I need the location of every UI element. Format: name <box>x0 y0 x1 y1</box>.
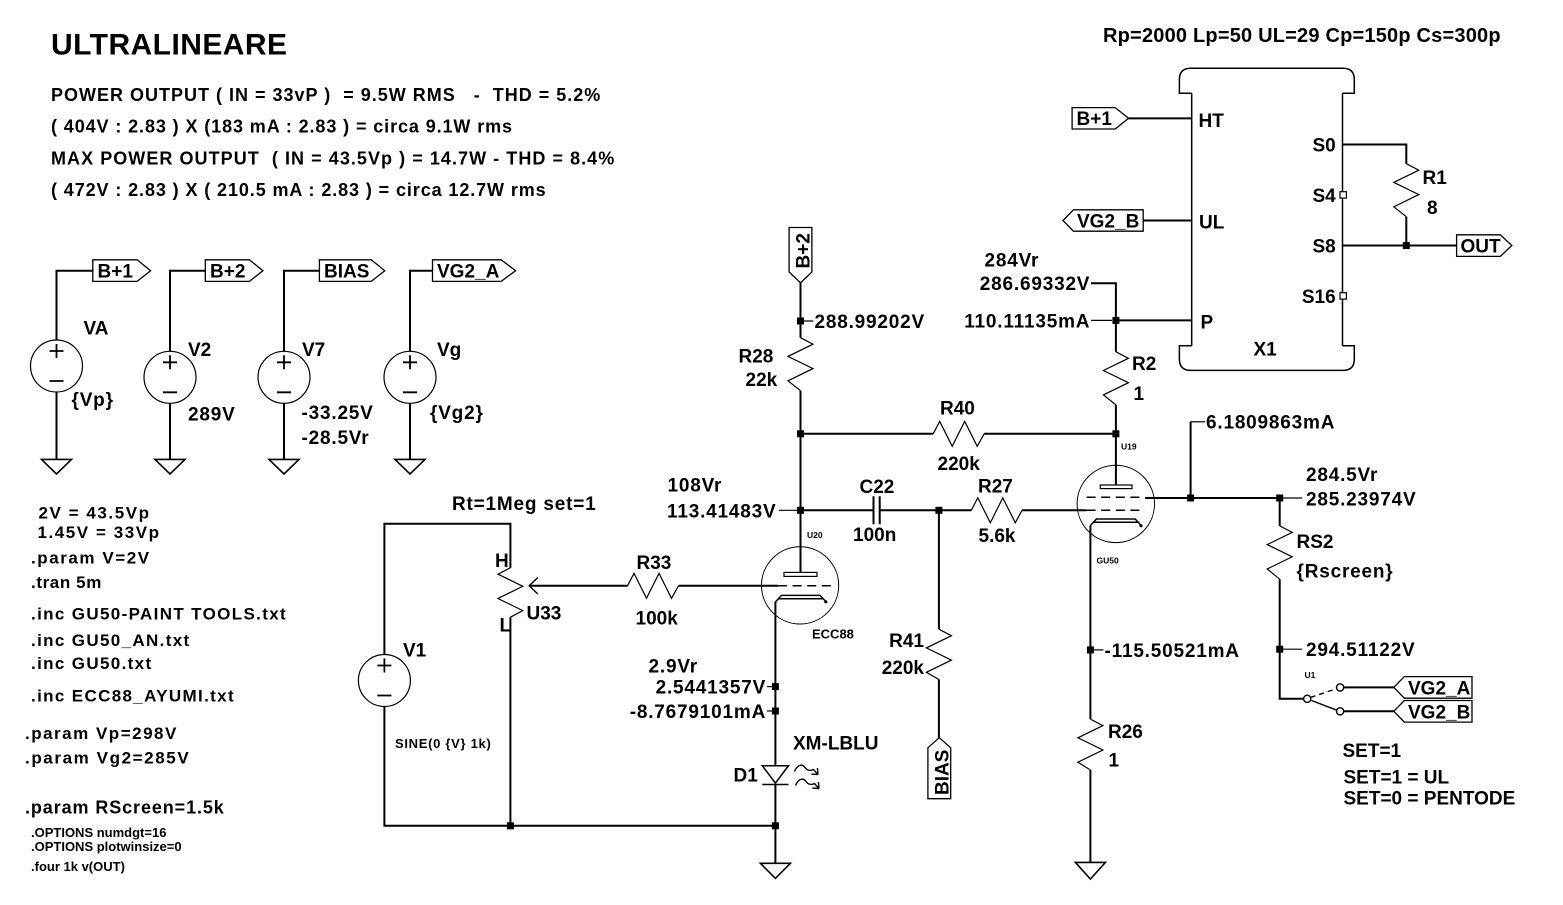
wire stub to 6.1809863mA <box>1190 422 1192 498</box>
svg-text:.OPTIONS numdgt=16: .OPTIONS numdgt=16 <box>31 825 166 840</box>
svg-text:2V = 43.5Vp: 2V = 43.5Vp <box>39 504 151 523</box>
resistor R33 <box>628 553 679 630</box>
svg-text:U1: U1 <box>1305 670 1316 680</box>
wire R1 to S8 net <box>1405 217 1407 246</box>
svg-text:SET=1: SET=1 <box>1343 741 1402 762</box>
svg-text:289V: 289V <box>188 405 236 426</box>
svg-text:ULTRALINEARE: ULTRALINEARE <box>51 29 288 62</box>
svg-text:VG2_A: VG2_A <box>1408 679 1471 700</box>
net flag BIAS (left column) <box>319 260 384 283</box>
triode U20 ECC88 <box>762 510 854 641</box>
svg-text:.OPTIONS plotwinsize=0: .OPTIONS plotwinsize=0 <box>31 839 182 854</box>
tick 110.11135mA <box>1091 319 1112 321</box>
wire R2 to node <box>1115 405 1117 434</box>
svg-text:H: H <box>495 551 509 572</box>
wire P node to pin P <box>1116 319 1192 321</box>
svg-text:.inc GU50_AN.txt: .inc GU50_AN.txt <box>31 631 191 650</box>
svg-text:R41: R41 <box>889 631 924 652</box>
svg-text:( 472V : 2.83 ) X ( 210.5 mA :: ( 472V : 2.83 ) X ( 210.5 mA : 2.83 ) = … <box>51 180 547 200</box>
svg-text:6.1809863mA: 6.1809863mA <box>1206 413 1335 434</box>
svg-text:R26: R26 <box>1108 722 1143 743</box>
ground (V7) <box>269 459 299 474</box>
svg-text:B+2: B+2 <box>210 262 245 283</box>
svg-text:1: 1 <box>1109 750 1120 771</box>
tick -115.50521mA <box>1094 649 1104 651</box>
svg-text:D1: D1 <box>734 766 759 787</box>
svg-text:R33: R33 <box>637 553 672 574</box>
wire R40 to R2 bottom node <box>984 433 1116 435</box>
wire R41 to BIAS flag <box>938 680 940 738</box>
svg-text:284Vr: 284Vr <box>985 251 1040 272</box>
svg-text:BIAS: BIAS <box>933 750 954 795</box>
svg-text:HT: HT <box>1199 111 1225 132</box>
wire V1 bottom to rail <box>384 707 775 826</box>
resistor R2 <box>1103 320 1156 405</box>
svg-text:S16: S16 <box>1302 287 1336 308</box>
wire RS2 to switch node <box>1279 579 1281 649</box>
wire node to C22 <box>801 509 874 511</box>
tick 285.23974V <box>1283 497 1302 499</box>
annotation spice directives block <box>25 504 287 818</box>
svg-text:SET=1 = UL: SET=1 = UL <box>1344 768 1450 789</box>
svg-text:.four 1k v(OUT): .four 1k v(OUT) <box>31 859 125 874</box>
junction -115.50521mA <box>1087 646 1094 653</box>
svg-text:C22: C22 <box>860 477 895 498</box>
svg-text:S0: S0 <box>1312 136 1335 157</box>
net flag VG2_B (at switch) <box>1394 701 1472 724</box>
junction at rail / D1 branch <box>772 822 779 829</box>
junction RS2 top <box>1276 495 1283 502</box>
junction 294.51122V <box>1276 646 1283 653</box>
svg-text:.param RScreen=1.5k: .param RScreen=1.5k <box>25 798 225 818</box>
wire V2 to B+2 flag <box>170 271 205 352</box>
wire ECC88 cathode down to D1 <box>774 602 776 766</box>
svg-text:BIAS: BIAS <box>324 262 369 283</box>
wiper arrow of U33 <box>529 578 538 595</box>
svg-text:V2: V2 <box>188 340 211 361</box>
junction at pot bottom / rail <box>507 822 514 829</box>
svg-text:R40: R40 <box>940 398 975 419</box>
net flag VG2_A (left column) <box>433 260 516 283</box>
svg-text:B+1: B+1 <box>98 262 134 283</box>
resistor R40 <box>933 398 984 475</box>
wire Vg to VG2_A flag <box>410 271 433 352</box>
svg-text:MAX POWER OUTPUT ( IN = 43.5V: MAX POWER OUTPUT ( IN = 43.5Vp ) = 14.7W… <box>51 148 615 168</box>
svg-text:ECC88: ECC88 <box>812 626 854 641</box>
svg-text:100k: 100k <box>636 609 679 630</box>
svg-text:{Rscreen}: {Rscreen} <box>1297 562 1394 583</box>
wire node A to R40 <box>801 433 934 435</box>
svg-text:RS2: RS2 <box>1297 532 1334 553</box>
voltage source V1 <box>358 641 491 752</box>
svg-text:-8.7679101mA: -8.7679101mA <box>630 702 766 723</box>
wire B+1 to HT <box>1129 117 1192 119</box>
net flag BIAS (vertical) <box>928 738 954 799</box>
svg-text:.param Vg2=285V: .param Vg2=285V <box>25 749 190 768</box>
svg-text:.tran 5m: .tran 5m <box>31 573 102 592</box>
svg-text:220k: 220k <box>882 658 925 679</box>
tick 6.1809863mA <box>1191 421 1205 423</box>
svg-text:284.5Vr: 284.5Vr <box>1306 465 1378 486</box>
svg-text:.param Vp=298V: .param Vp=298V <box>25 724 178 743</box>
resistor R1 <box>1394 164 1447 219</box>
wire VA to B+1 flag <box>57 271 93 340</box>
svg-text:POWER OUTPUT ( IN = 33vP ) =: POWER OUTPUT ( IN = 33vP ) = 9.5W RMS - … <box>51 85 601 105</box>
voltage source V7 <box>258 340 374 449</box>
junction P node <box>1112 317 1119 324</box>
tick + junction -8.7679101mA <box>767 710 772 712</box>
svg-text:108Vr: 108Vr <box>668 476 723 497</box>
svg-text:OUT: OUT <box>1461 237 1502 258</box>
junction screen stub <box>1187 495 1194 502</box>
potentiometer U33 <box>495 551 561 637</box>
svg-text:VG2_A: VG2_A <box>437 262 500 283</box>
svg-text:U33: U33 <box>527 604 562 625</box>
svg-text:Vg: Vg <box>437 340 461 361</box>
wire R26 to ground <box>1089 770 1091 862</box>
open pin square S16 <box>1340 293 1346 299</box>
svg-text:VA: VA <box>84 319 109 340</box>
svg-text:Rt=1Meg set=1: Rt=1Meg set=1 <box>452 494 597 515</box>
wire U33 bottom to bottom rail <box>509 617 511 826</box>
svg-text:UL: UL <box>1199 213 1225 234</box>
junction R28/R40 <box>797 430 804 437</box>
svg-text:2.9Vr: 2.9Vr <box>649 657 698 678</box>
svg-text:V1: V1 <box>403 641 427 662</box>
svg-text:113.41483V: 113.41483V <box>667 501 776 522</box>
svg-text:8: 8 <box>1427 198 1438 219</box>
svg-text:-33.25V: -33.25V <box>302 403 374 424</box>
net flag B+1 (at transformer) <box>1072 108 1129 130</box>
svg-text:S4: S4 <box>1312 186 1336 207</box>
wire V1 top to potentiometer top <box>384 524 510 655</box>
ground (Vg) <box>395 459 425 474</box>
wire GU50 cathode down <box>1089 526 1091 720</box>
wire switch throw A to VG2_A flag <box>1344 686 1394 688</box>
svg-text:.inc GU50-PAINT TOOLS.txt: .inc GU50-PAINT TOOLS.txt <box>31 605 287 624</box>
wire VG2_B to UL <box>1143 220 1192 222</box>
resistor R27 <box>971 476 1022 547</box>
wire R27 to GU50 grid <box>1022 509 1087 511</box>
svg-text:SET=0 = PENTODE: SET=0 = PENTODE <box>1344 789 1516 810</box>
svg-text:{Vg2}: {Vg2} <box>430 403 484 424</box>
svg-text:1: 1 <box>1134 384 1145 405</box>
svg-text:XM-LBLU: XM-LBLU <box>793 734 878 755</box>
svg-text:VG2_B: VG2_B <box>1077 212 1139 233</box>
svg-text:110.11135mA: 110.11135mA <box>964 311 1090 332</box>
svg-text:1.45V = 33Vp: 1.45V = 33Vp <box>38 523 161 542</box>
pentode U19 GU50 <box>1077 434 1154 566</box>
junction node 288.99202V <box>797 318 804 325</box>
wire U33 wiper to R33 <box>529 585 627 587</box>
tick + junction 2.5441357V <box>767 686 772 688</box>
svg-text:U19: U19 <box>1121 441 1137 451</box>
svg-text:SINE(0 {V} 1k): SINE(0 {V} 1k) <box>395 736 492 751</box>
svg-text:-115.50521mA: -115.50521mA <box>1105 641 1240 662</box>
svg-text:2.5441357V: 2.5441357V <box>656 678 767 699</box>
svg-text:GU50: GU50 <box>1097 556 1119 566</box>
svg-text:R28: R28 <box>739 347 774 368</box>
wire C22 to R27 node <box>880 509 972 511</box>
ground (D1) <box>760 863 790 878</box>
svg-text:U20: U20 <box>807 530 823 540</box>
wire S8 to OUT flag <box>1343 245 1457 247</box>
LED D1 <box>734 766 789 787</box>
resistor R28 <box>739 338 814 391</box>
junction C22/R27/R41 <box>935 507 942 514</box>
net flag B+2 <box>205 260 263 283</box>
wire V2 to ground <box>169 403 171 459</box>
svg-text:R27: R27 <box>978 476 1013 497</box>
svg-text:285.23974V: 285.23974V <box>1306 490 1417 511</box>
wire switch throw B to VG2_B flag <box>1344 710 1394 712</box>
svg-text:5.6k: 5.6k <box>979 526 1016 547</box>
svg-text:V7: V7 <box>302 340 325 361</box>
wire R28 to node A (junction R40) <box>800 391 802 511</box>
net flag B+2 (vertical, above R28) <box>789 228 814 283</box>
net flag B+1 <box>93 260 151 283</box>
tick to 288.99202V label <box>804 320 814 322</box>
wire Vg to ground <box>409 403 411 459</box>
wire B+2 flag to R28 <box>800 283 802 338</box>
svg-text:.param V=2V: .param V=2V <box>31 549 151 568</box>
svg-text:R2: R2 <box>1132 354 1156 375</box>
svg-text:22k: 22k <box>746 370 778 391</box>
resistor R26 <box>1078 719 1143 771</box>
svg-text:-28.5Vr: -28.5Vr <box>302 428 370 449</box>
junction ECC88 plate node <box>797 507 804 514</box>
tick 294.51122V <box>1283 648 1302 650</box>
svg-text:R1: R1 <box>1423 168 1448 189</box>
open pin square S4 <box>1340 192 1346 198</box>
wire V7 to BIAS flag <box>284 271 319 352</box>
ground (R26) <box>1075 862 1105 879</box>
wire R41 top <box>938 510 940 629</box>
svg-text:.inc ECC88_AYUMI.txt: .inc ECC88_AYUMI.txt <box>31 687 235 706</box>
wire node to switch pole <box>1280 649 1304 699</box>
voltage source V2 <box>144 340 236 426</box>
svg-text:{Vp}: {Vp} <box>72 390 114 411</box>
resistor RS2 <box>1267 498 1393 583</box>
wire GU50 screen to RS2 node <box>1145 497 1280 499</box>
svg-text:288.99202V: 288.99202V <box>815 312 926 333</box>
junction R2/R40/GU50 plate <box>1112 430 1119 437</box>
svg-text:220k: 220k <box>938 454 981 475</box>
voltage source Vg <box>384 340 484 424</box>
svg-text:B+1: B+1 <box>1077 109 1113 130</box>
annotation SET lines <box>1343 741 1516 810</box>
svg-text:B+2: B+2 <box>794 233 815 268</box>
switch U1 <box>1304 670 1344 715</box>
svg-text:Rp=2000 Lp=50 UL=29 Cp=150p Cs: Rp=2000 Lp=50 UL=29 Cp=150p Cs=300p <box>1103 25 1501 47</box>
resistor R41 <box>882 629 952 679</box>
wire VA to ground <box>56 392 58 459</box>
junction R1/S8 <box>1403 242 1410 249</box>
ground (VA) <box>42 459 72 474</box>
svg-text:P: P <box>1201 313 1214 334</box>
svg-text:294.51122V: 294.51122V <box>1306 640 1415 661</box>
svg-text:100n: 100n <box>853 525 896 546</box>
net flag OUT <box>1457 235 1512 258</box>
svg-text:S8: S8 <box>1312 237 1335 258</box>
capacitor C22 <box>853 477 896 546</box>
ground (V2) <box>155 459 185 474</box>
wire R33 to ECC88 grid <box>679 585 779 587</box>
wire elbow 286.69332V to P node <box>1091 283 1116 320</box>
voltage source VA <box>31 319 114 412</box>
wire D1 to ground <box>774 785 776 864</box>
svg-text:.inc GU50.txt: .inc GU50.txt <box>31 654 152 673</box>
net flag VG2_B (at transformer) <box>1063 210 1143 233</box>
net flag VG2_A (at switch) <box>1394 677 1472 700</box>
svg-text:VG2_B: VG2_B <box>1408 702 1470 723</box>
svg-text:X1: X1 <box>1254 340 1278 361</box>
wire S0 to R1 <box>1343 145 1407 164</box>
svg-text:( 404V : 2.83 ) X (183 mA : 2.: ( 404V : 2.83 ) X (183 mA : 2.83 ) = cir… <box>51 117 513 137</box>
wire V7 to ground <box>283 403 285 459</box>
tick 113.41483V to node <box>779 509 797 511</box>
annotation power output lines <box>51 85 615 200</box>
svg-text:286.69332V: 286.69332V <box>980 274 1091 295</box>
LED light arrows <box>795 765 820 788</box>
transformer X1 body <box>1179 68 1354 370</box>
